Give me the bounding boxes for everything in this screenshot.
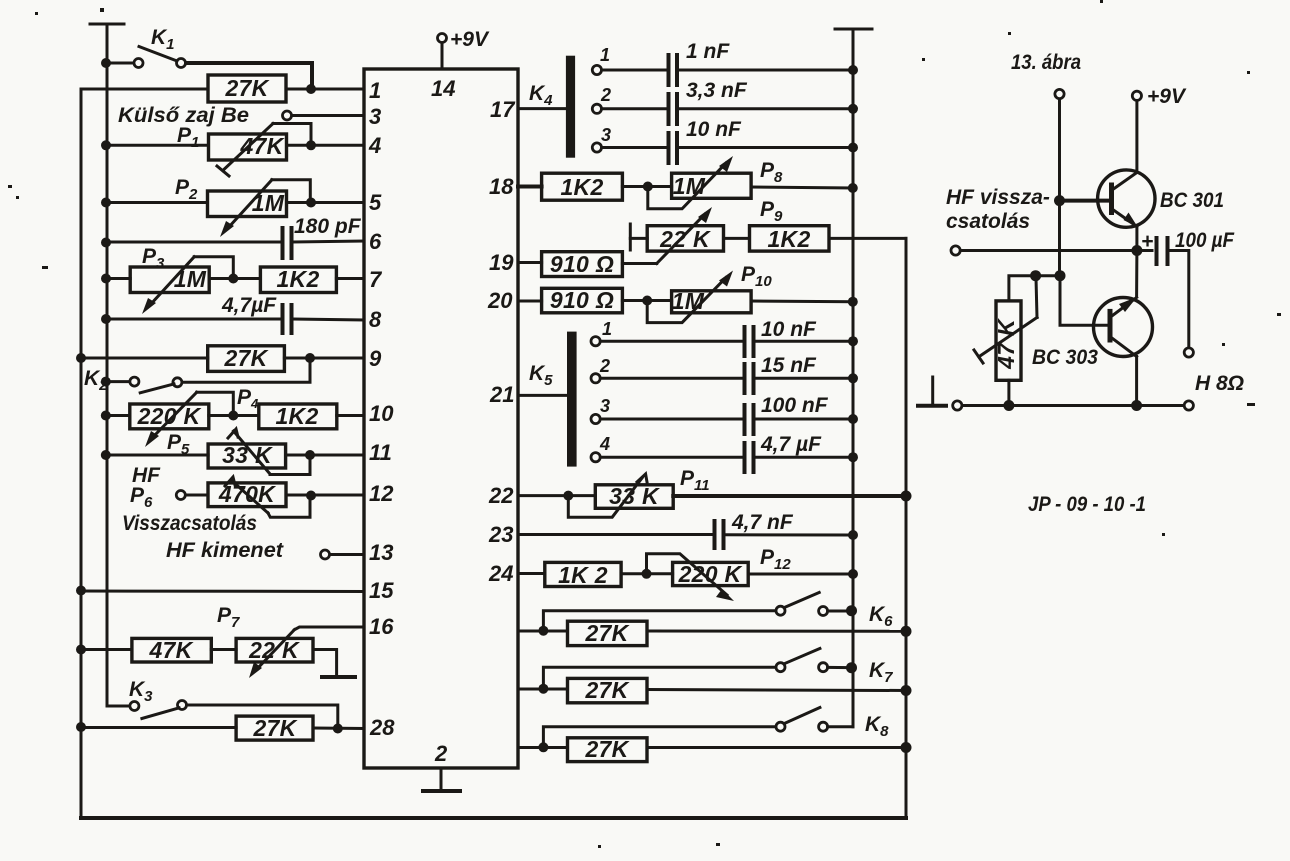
svg-text:13: 13 bbox=[369, 540, 393, 565]
svg-text:P11: P11 bbox=[680, 467, 710, 494]
svg-text:180 pF: 180 pF bbox=[294, 215, 362, 238]
K5 contact 1 + capacitor 10 nF bbox=[591, 318, 858, 356]
top-right rail T bbox=[835, 29, 872, 727]
capacitor 180 pF (pin 6) bbox=[101, 215, 382, 258]
svg-text:910 Ω: 910 Ω bbox=[550, 287, 614, 313]
capacitor 4,7µF (pin 8) bbox=[101, 294, 382, 333]
svg-text:1: 1 bbox=[369, 78, 381, 103]
svg-text:3,3 nF: 3,3 nF bbox=[686, 79, 748, 102]
svg-text:27K: 27K bbox=[223, 345, 268, 371]
switch K1 bbox=[101, 26, 312, 86]
ground at 22K bbox=[313, 650, 355, 678]
svg-text:csatolás: csatolás bbox=[946, 210, 1030, 233]
resistor 27K (pin 27) bbox=[518, 736, 912, 762]
svg-text:2: 2 bbox=[434, 741, 448, 766]
potentiometer P11 33K (pin 22) bbox=[488, 467, 912, 517]
resistor 27K (pin 25) bbox=[518, 620, 912, 646]
svg-text:8: 8 bbox=[369, 307, 382, 332]
wire pin 15 bbox=[76, 578, 394, 603]
potentiometer P6 470K (pin 12) bbox=[130, 477, 394, 517]
svg-text:P1: P1 bbox=[177, 124, 199, 151]
svg-text:K6: K6 bbox=[869, 603, 893, 630]
pin 3 input terminal bbox=[283, 104, 382, 129]
right far bus bbox=[905, 238, 908, 818]
potentiometer P1 47K (pin 4) bbox=[101, 124, 381, 177]
svg-text:23: 23 bbox=[488, 522, 513, 547]
resistor 1K2 (pin 7) bbox=[260, 266, 383, 293]
svg-text:2: 2 bbox=[599, 356, 610, 376]
svg-text:Visszacsatolás: Visszacsatolás bbox=[122, 512, 257, 535]
IC U1 body bbox=[364, 69, 518, 768]
svg-text:P12: P12 bbox=[760, 546, 791, 573]
svg-text:HF kimenet: HF kimenet bbox=[166, 539, 284, 562]
bottom wire bbox=[81, 816, 906, 820]
K4 contact 1 + capacitor 1 nF bbox=[592, 40, 858, 85]
HF input terminal bbox=[1055, 89, 1064, 271]
svg-text:1M: 1M bbox=[252, 190, 285, 216]
svg-text:11: 11 bbox=[369, 440, 392, 465]
svg-text:K5: K5 bbox=[529, 362, 553, 389]
svg-text:15 nF: 15 nF bbox=[761, 354, 817, 377]
svg-text:5: 5 bbox=[369, 190, 382, 215]
svg-text:22 K: 22 K bbox=[659, 226, 711, 252]
svg-text:1K 2: 1K 2 bbox=[558, 562, 608, 588]
svg-text:9: 9 bbox=[369, 346, 382, 371]
svg-text:P7: P7 bbox=[217, 604, 240, 631]
resistor 27K (pin 9) bbox=[76, 345, 382, 371]
svg-text:+: + bbox=[1141, 230, 1153, 253]
svg-text:1: 1 bbox=[600, 45, 610, 65]
selector K5 bbox=[489, 332, 577, 467]
K5 contact 2 + capacitor 15 nF bbox=[591, 354, 858, 393]
potentiometer P2 1M (pin 5) bbox=[101, 176, 382, 237]
resistor 1K2 (P9 out) bbox=[750, 226, 907, 252]
svg-text:1K2: 1K2 bbox=[275, 403, 318, 429]
resistor 27K (pin 26) bbox=[518, 677, 912, 703]
svg-text:220 K: 220 K bbox=[137, 403, 202, 429]
svg-text:910 Ω: 910 Ω bbox=[550, 251, 614, 277]
resistor 27K (pin 28) bbox=[76, 715, 395, 741]
resistor 1K2 (pin 18) bbox=[489, 173, 672, 200]
potentiometer P7 22K (pin 16) bbox=[236, 614, 394, 678]
svg-text:220 K: 220 K bbox=[678, 561, 743, 587]
left outer bus bbox=[80, 89, 83, 818]
capacitor 4,7 nF (pin 23) bbox=[488, 511, 858, 548]
svg-text:3: 3 bbox=[600, 396, 610, 416]
potentiometer P8 1M (pin 18) bbox=[648, 156, 858, 209]
svg-text:27K: 27K bbox=[584, 736, 629, 762]
switch K8 bbox=[543, 708, 889, 744]
svg-text:27K: 27K bbox=[584, 620, 629, 646]
svg-text:12: 12 bbox=[369, 481, 394, 506]
svg-text:+9V: +9V bbox=[450, 28, 490, 51]
selector K4 bbox=[490, 56, 575, 158]
K4 contact 3 + capacitor 10 nF bbox=[592, 118, 858, 163]
svg-text:4: 4 bbox=[368, 133, 381, 158]
switch K7 bbox=[543, 649, 893, 687]
svg-text:P8: P8 bbox=[760, 159, 783, 186]
svg-text:1K2: 1K2 bbox=[767, 226, 810, 252]
svg-text:20: 20 bbox=[487, 288, 513, 313]
potentiometer P9 22K (pin 19) bbox=[630, 198, 783, 264]
potentiometer P5 33K (pin 11) bbox=[101, 429, 392, 475]
top-left rail T bbox=[90, 23, 124, 26]
svg-text:K7: K7 bbox=[869, 659, 893, 686]
switch K3 bbox=[107, 678, 338, 724]
resistor 1K2 (pin 24) bbox=[488, 561, 673, 588]
svg-text:1 nF: 1 nF bbox=[686, 40, 730, 63]
svg-text:+9V: +9V bbox=[1147, 85, 1187, 108]
svg-text:BC 301: BC 301 bbox=[1160, 189, 1224, 212]
transistor Q1 BC 301 bbox=[1054, 170, 1224, 251]
potentiometer 47K (vertical) bbox=[974, 270, 1066, 405]
svg-text:100 µF: 100 µF bbox=[1175, 229, 1235, 252]
svg-text:10 nF: 10 nF bbox=[761, 318, 817, 341]
svg-text:18: 18 bbox=[489, 174, 514, 199]
transistor Q2 BC 303 bbox=[1032, 251, 1153, 406]
svg-text:100 nF: 100 nF bbox=[761, 394, 829, 417]
svg-text:10: 10 bbox=[369, 401, 394, 426]
resistor 910 Ω (pin 19) bbox=[489, 250, 657, 277]
resistor 1K2 (pin 10) bbox=[259, 401, 394, 429]
svg-text:1M: 1M bbox=[673, 173, 706, 199]
svg-text:K4: K4 bbox=[529, 82, 553, 109]
svg-text:1M: 1M bbox=[174, 266, 207, 292]
ground (amplifier) bbox=[918, 377, 946, 406]
resistor R1 27K (pin 1) bbox=[81, 75, 381, 103]
potentiometer P10 1M (pin 20) bbox=[647, 263, 858, 323]
svg-text:K1: K1 bbox=[151, 26, 175, 53]
svg-text:3: 3 bbox=[601, 125, 611, 145]
svg-text:22: 22 bbox=[488, 483, 514, 508]
svg-text:H 8Ω: H 8Ω bbox=[1195, 372, 1244, 395]
resistor 910 Ω (pin 20) bbox=[487, 287, 672, 313]
svg-text:1K2: 1K2 bbox=[560, 174, 603, 200]
svg-text:16: 16 bbox=[369, 614, 394, 639]
svg-text:K8: K8 bbox=[865, 713, 889, 740]
svg-text:27K: 27K bbox=[252, 715, 297, 741]
svg-text:P4: P4 bbox=[237, 386, 259, 411]
+9V amplifier terminal bbox=[1132, 85, 1187, 171]
resistor 47K (P7 row) bbox=[76, 604, 240, 663]
left inner bus bbox=[106, 24, 109, 706]
output row with capacitor 100 µF bbox=[951, 229, 1235, 357]
+9V supply terminal bbox=[438, 28, 490, 69]
potentiometer P4 220K (pin 10) bbox=[101, 386, 259, 458]
svg-text:4,7 µF: 4,7 µF bbox=[760, 433, 822, 456]
amplifier bottom rail bbox=[953, 400, 1194, 411]
svg-text:3: 3 bbox=[369, 104, 381, 129]
switch K2 bbox=[84, 358, 310, 394]
svg-text:47K: 47K bbox=[148, 637, 193, 663]
svg-text:15: 15 bbox=[369, 578, 394, 603]
svg-text:13. ábra: 13. ábra bbox=[1011, 51, 1081, 74]
svg-text:6: 6 bbox=[369, 229, 382, 254]
svg-text:19: 19 bbox=[489, 250, 514, 275]
svg-text:28: 28 bbox=[369, 715, 395, 740]
svg-text:2: 2 bbox=[600, 85, 611, 105]
svg-text:4: 4 bbox=[599, 434, 610, 454]
svg-text:7: 7 bbox=[369, 267, 383, 292]
svg-text:24: 24 bbox=[488, 561, 513, 586]
svg-text:1K2: 1K2 bbox=[276, 266, 319, 292]
svg-text:10 nF: 10 nF bbox=[686, 118, 742, 141]
svg-text:27K: 27K bbox=[584, 677, 629, 703]
svg-text:P2: P2 bbox=[175, 176, 198, 203]
K4 contact 2 + capacitor 3,3 nF bbox=[592, 79, 858, 124]
svg-text:BC 303: BC 303 bbox=[1032, 346, 1098, 369]
label HF visszacsatolás bbox=[946, 186, 1050, 233]
switch K6 bbox=[543, 593, 893, 631]
pin 13 output terminal bbox=[321, 540, 394, 565]
svg-text:47K: 47K bbox=[239, 133, 284, 159]
K5 contact 3 + capacitor 100 nF bbox=[591, 394, 858, 434]
potentiometer P12 220K (pin 24) bbox=[647, 546, 859, 601]
svg-text:HF vissza-: HF vissza- bbox=[946, 186, 1050, 209]
K5 contact 4 + capacitor 4,7 µF bbox=[591, 433, 858, 472]
svg-text:14: 14 bbox=[431, 76, 455, 101]
svg-text:4,7 nF: 4,7 nF bbox=[731, 511, 794, 534]
svg-text:1M: 1M bbox=[672, 288, 705, 314]
svg-text:1: 1 bbox=[602, 319, 612, 339]
svg-text:27K: 27K bbox=[224, 75, 269, 101]
ground under IC bbox=[423, 768, 460, 791]
svg-text:21: 21 bbox=[489, 382, 514, 407]
svg-text:P9: P9 bbox=[760, 198, 783, 225]
svg-text:P6: P6 bbox=[130, 484, 153, 511]
svg-text:17: 17 bbox=[490, 97, 516, 122]
svg-text:P10: P10 bbox=[741, 263, 772, 290]
svg-text:JP - 09 - 10 -1: JP - 09 - 10 -1 bbox=[1028, 493, 1146, 516]
potentiometer P3 1M (pin 7) bbox=[101, 245, 260, 314]
svg-text:4,7µF: 4,7µF bbox=[221, 294, 277, 317]
